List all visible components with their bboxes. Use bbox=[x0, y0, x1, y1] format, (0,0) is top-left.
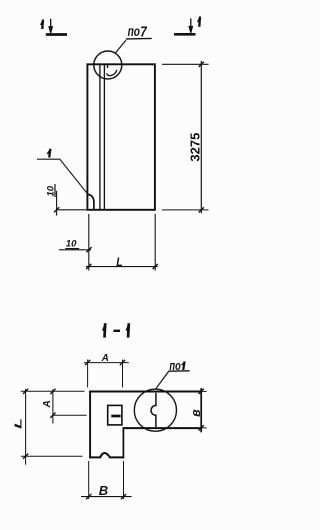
dim B ticks bbox=[86, 494, 91, 499]
section outline: top edge bbox=[89, 390, 202, 392]
dim L left: dim line bbox=[25, 389, 27, 465]
leader line to notch bbox=[37, 159, 89, 195]
svg-text:L: L bbox=[13, 418, 24, 429]
detail smile arc in circle bbox=[107, 70, 117, 76]
underline po1 bbox=[168, 370, 189, 372]
svg-text:L: L bbox=[116, 257, 123, 270]
dim A left: dim line bbox=[52, 389, 54, 423]
dim A top witness lines bbox=[87, 360, 89, 388]
dim b right ext bottom bbox=[201, 427, 206, 429]
tick offset dim bbox=[86, 247, 91, 252]
svg-text:А: А bbox=[42, 400, 53, 408]
section title dash bbox=[113, 330, 120, 332]
underline of po7 bbox=[126, 37, 152, 40]
section mark 1 top-left: thick cut line bbox=[46, 33, 67, 36]
dim A top: dim line bbox=[84, 362, 129, 364]
height dim line bbox=[200, 61, 202, 213]
underline label 10 bbox=[65, 248, 79, 250]
section mark 1 top-right: thick cut line bbox=[174, 33, 196, 36]
tick on notch dim bbox=[54, 207, 59, 212]
dim A left ticks bbox=[50, 389, 55, 394]
groove middle dash bbox=[111, 415, 120, 418]
groove rectangle in leg bbox=[108, 405, 122, 425]
base notch quarter-round bbox=[88, 195, 94, 210]
svg-text:3275: 3275 bbox=[187, 133, 202, 162]
section mark 1 top-left: label 1 bbox=[41, 20, 43, 29]
notch height dim line bbox=[56, 191, 58, 216]
leader to po1 bbox=[156, 371, 169, 388]
dim A top ticks bbox=[85, 360, 90, 365]
dim b right ext top bbox=[201, 390, 206, 392]
height dim ext top bbox=[162, 63, 209, 65]
svg-text:А: А bbox=[101, 353, 109, 364]
rib line right bbox=[103, 65, 105, 209]
section mark 1 top-left: view arrow bbox=[49, 19, 53, 33]
section outline: leg right edge bbox=[122, 427, 124, 458]
section mark 1 top-right: label 1 bbox=[198, 16, 200, 26]
dim L left ext top bbox=[21, 390, 85, 392]
panel elevation outline bbox=[87, 64, 154, 210]
dim L left ext bottom bbox=[21, 455, 83, 457]
height dim ext bottom bbox=[162, 209, 209, 211]
dim A left ext line bbox=[53, 414, 87, 416]
svg-text:7: 7 bbox=[140, 23, 147, 40]
dim B bottom witness lines bbox=[88, 461, 90, 499]
detail circle po1 bbox=[134, 389, 176, 431]
section title 1 - 1 : left digit bbox=[103, 323, 106, 337]
witness line left under panel bbox=[88, 214, 90, 271]
section mark 1 top-right: view arrow bbox=[189, 18, 193, 33]
offset dim 10 line bbox=[59, 249, 91, 251]
witness line right under panel bbox=[154, 214, 156, 271]
svg-text:В: В bbox=[99, 483, 108, 498]
bottom edge extension to left bbox=[56, 209, 87, 211]
underline of rotated 10 bbox=[54, 184, 56, 197]
section outline: left edge bbox=[89, 391, 91, 459]
leader label 1 bbox=[47, 149, 50, 158]
svg-text:в: в bbox=[189, 409, 203, 417]
svg-text:10: 10 bbox=[66, 239, 77, 250]
section outline: bar bottom edge bbox=[123, 427, 202, 429]
tick L right bbox=[153, 264, 158, 269]
tick 3275 top bbox=[199, 62, 204, 67]
svg-text:по: по bbox=[128, 24, 140, 40]
detail callout circle po7 bbox=[94, 51, 122, 79]
tick L left bbox=[86, 264, 91, 269]
section outline: leg bottom with half-round notch bbox=[89, 453, 124, 457]
dim b right ticks bbox=[199, 389, 204, 394]
section title 1 - 1 : right digit bbox=[126, 323, 129, 337]
width dim line L bbox=[86, 266, 158, 268]
leader to label po7 bbox=[115, 40, 126, 53]
break line inside detail circle bbox=[151, 393, 156, 427]
detail short line in circle bbox=[107, 65, 109, 68]
dim B bottom line bbox=[81, 496, 132, 498]
tick 3275 bottom bbox=[199, 207, 204, 212]
section outline: right edge (doubles as dim line) bbox=[200, 388, 202, 432]
rib line left bbox=[99, 65, 101, 209]
dim L left ticks bbox=[23, 389, 28, 394]
